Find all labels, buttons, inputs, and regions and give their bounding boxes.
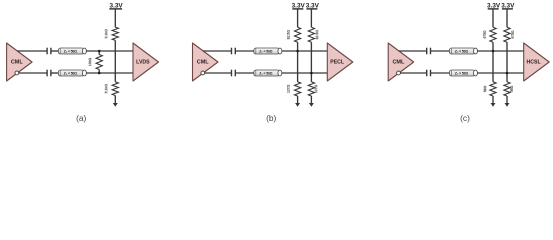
junction node D: [310, 72, 313, 75]
capacitor C3: [232, 48, 236, 55]
LVDS receiver U2a: [133, 43, 159, 81]
svg-text:56Ω: 56Ω: [510, 85, 514, 92]
wire U1c+ to C5: [399, 50, 427, 52]
wire R9 to R11 crossing lines: [506, 42, 508, 82]
wire 3.3V to R9: [506, 9, 508, 27]
wire R2 to ground: [114, 96, 116, 104]
wire C6 to TL6: [431, 72, 450, 74]
label R11 value 56ohm: [510, 85, 514, 92]
wire 3.3V to R1: [114, 9, 116, 27]
svg-text:100Ω: 100Ω: [88, 58, 92, 67]
wire C2 to TL2: [51, 72, 58, 74]
inverting output bubble U1b: [201, 71, 205, 75]
svg-text:9.1kΩ: 9.1kΩ: [104, 29, 108, 39]
capacitor C4: [232, 70, 236, 77]
transmission line Z0=50ohm TL5: [449, 48, 477, 54]
wire TL4 to PECL-: [282, 72, 328, 74]
svg-text:82.5Ω: 82.5Ω: [315, 30, 319, 40]
3.3V supply rail circuit b right: [306, 3, 320, 10]
inverting output bubble U1a: [15, 71, 19, 75]
wire 3.3V to R5: [310, 9, 312, 27]
label R6 value 127ohm: [287, 84, 291, 93]
caption c: [460, 113, 470, 123]
transmission line Z0=50ohm TL1: [58, 48, 86, 54]
ground circuit a: [113, 103, 118, 107]
junction node C: [296, 50, 299, 53]
wire U1a- to C2: [19, 72, 47, 74]
wire TL6 to HCSL-: [477, 72, 524, 74]
svg-text:Z₀ = 50Ω: Z₀ = 50Ω: [455, 49, 469, 53]
inverting output bubble U1c: [397, 71, 401, 75]
transmission line Z0=50ohm TL3: [254, 48, 282, 54]
resistor R3 100ohm: [96, 55, 102, 70]
svg-text:HCSL: HCSL: [527, 59, 542, 65]
ground circuit c right: [505, 96, 510, 107]
wire TL1 to LVDS+: [86, 50, 133, 52]
junction node E: [492, 50, 495, 53]
wire U1c- to C6: [400, 72, 426, 74]
label R7 value 127ohm: [314, 84, 318, 93]
junction node B: [98, 72, 101, 75]
label R8 value 475ohm: [483, 30, 487, 39]
resistor R9 475ohm: [504, 27, 510, 42]
svg-text:(b): (b): [266, 113, 276, 123]
caption b: [266, 113, 276, 123]
svg-text:475Ω: 475Ω: [483, 30, 487, 39]
svg-text:127Ω: 127Ω: [287, 84, 291, 93]
label R2 value 5.1kohm: [104, 84, 108, 94]
resistor R4 82.5ohm: [295, 27, 301, 42]
wire TL3 to PECL+: [282, 50, 328, 52]
resistor R2 5.1kohm: [112, 82, 118, 96]
svg-text:(c): (c): [460, 113, 470, 123]
CML driver U1a: [7, 43, 32, 81]
capacitor C6: [427, 70, 431, 77]
transmission line Z0=50ohm TL2: [58, 70, 86, 76]
svg-text:Z₀ = 50Ω: Z₀ = 50Ω: [259, 49, 273, 53]
ground circuit b left: [295, 96, 300, 107]
wire C1 to TL1: [51, 50, 58, 52]
wire C4 to TL4: [235, 72, 254, 74]
wire R8 to R10 crossing lines: [492, 42, 494, 82]
transmission line Z0=50ohm TL4: [254, 70, 282, 76]
wire TL2 to LVDS-: [86, 72, 133, 74]
resistor R5 82.5ohm: [308, 27, 314, 42]
wire R1 to R2 crossing lines: [114, 40, 116, 82]
capacitor C1: [47, 48, 51, 55]
svg-text:Z₀ = 50Ω: Z₀ = 50Ω: [259, 71, 273, 75]
svg-text:LVDS: LVDS: [136, 59, 150, 65]
capacitor C5: [427, 48, 431, 55]
CML driver U1c: [388, 43, 414, 81]
3.3V supply rail circuit c right: [501, 3, 515, 10]
wire U1a+ to C1: [17, 50, 47, 52]
svg-text:(a): (a): [76, 113, 86, 123]
svg-text:CML: CML: [197, 59, 210, 65]
resistor R10 56ohm: [490, 82, 496, 96]
wire C5 to TL5: [431, 50, 450, 52]
ground circuit c left: [491, 96, 496, 107]
svg-text:127Ω: 127Ω: [314, 84, 318, 93]
svg-text:CML: CML: [11, 59, 24, 65]
label R9 value 475ohm: [511, 30, 515, 39]
svg-text:Z₀ = 50Ω: Z₀ = 50Ω: [455, 71, 469, 75]
label R10 value 56ohm: [483, 85, 487, 92]
3.3V supply rail circuit c left: [487, 3, 501, 10]
wire 3.3V to R4: [297, 9, 299, 27]
wire R3 bottom to node B: [98, 70, 100, 74]
junction node F: [506, 72, 509, 75]
wire 3.3V to R8: [492, 9, 494, 27]
wire C3 to TL3: [235, 50, 254, 52]
resistor R1 9.1kohm: [112, 27, 118, 40]
resistor R6 127ohm: [295, 82, 301, 96]
svg-text:Z₀ = 50Ω: Z₀ = 50Ω: [64, 49, 78, 53]
svg-text:5.1kΩ: 5.1kΩ: [104, 84, 108, 94]
caption a: [76, 113, 86, 123]
transmission line Z0=50ohm TL6: [449, 70, 477, 76]
wire U1b- to C4: [205, 72, 232, 74]
3.3V supply rail circuit a: [109, 3, 123, 10]
HCSL receiver U2c: [524, 43, 550, 81]
svg-text:CML: CML: [392, 59, 405, 65]
svg-text:Z₀ = 50Ω: Z₀ = 50Ω: [64, 71, 78, 75]
label R3 value 100ohm: [88, 58, 92, 67]
label R5 value 82.5ohm: [315, 30, 319, 40]
resistor R7 127ohm: [308, 82, 314, 96]
ground circuit b right: [309, 96, 314, 107]
resistor R11 56ohm: [504, 82, 510, 96]
label R4 value 82.5ohm: [287, 30, 291, 40]
CML driver U1b: [193, 43, 219, 81]
svg-text:56Ω: 56Ω: [483, 85, 487, 92]
resistor R8 475ohm: [490, 27, 496, 42]
svg-text:PECL: PECL: [330, 59, 345, 65]
wire R5 to R7 crossing lines: [310, 42, 312, 82]
wire TL5 to HCSL+: [477, 50, 524, 52]
wire node A to R3 top: [98, 51, 100, 55]
label R1 value 9.1kohm: [104, 29, 108, 39]
svg-text:475Ω: 475Ω: [511, 30, 515, 39]
junction node A: [98, 50, 101, 53]
wire U1b+ to C3: [203, 50, 231, 52]
PECL receiver U2b: [327, 43, 353, 81]
capacitor C2: [47, 70, 51, 77]
3.3V supply rail circuit b left: [292, 3, 306, 10]
wire R4 to R6 crossing lines: [297, 42, 299, 82]
svg-text:82.5Ω: 82.5Ω: [287, 30, 291, 40]
